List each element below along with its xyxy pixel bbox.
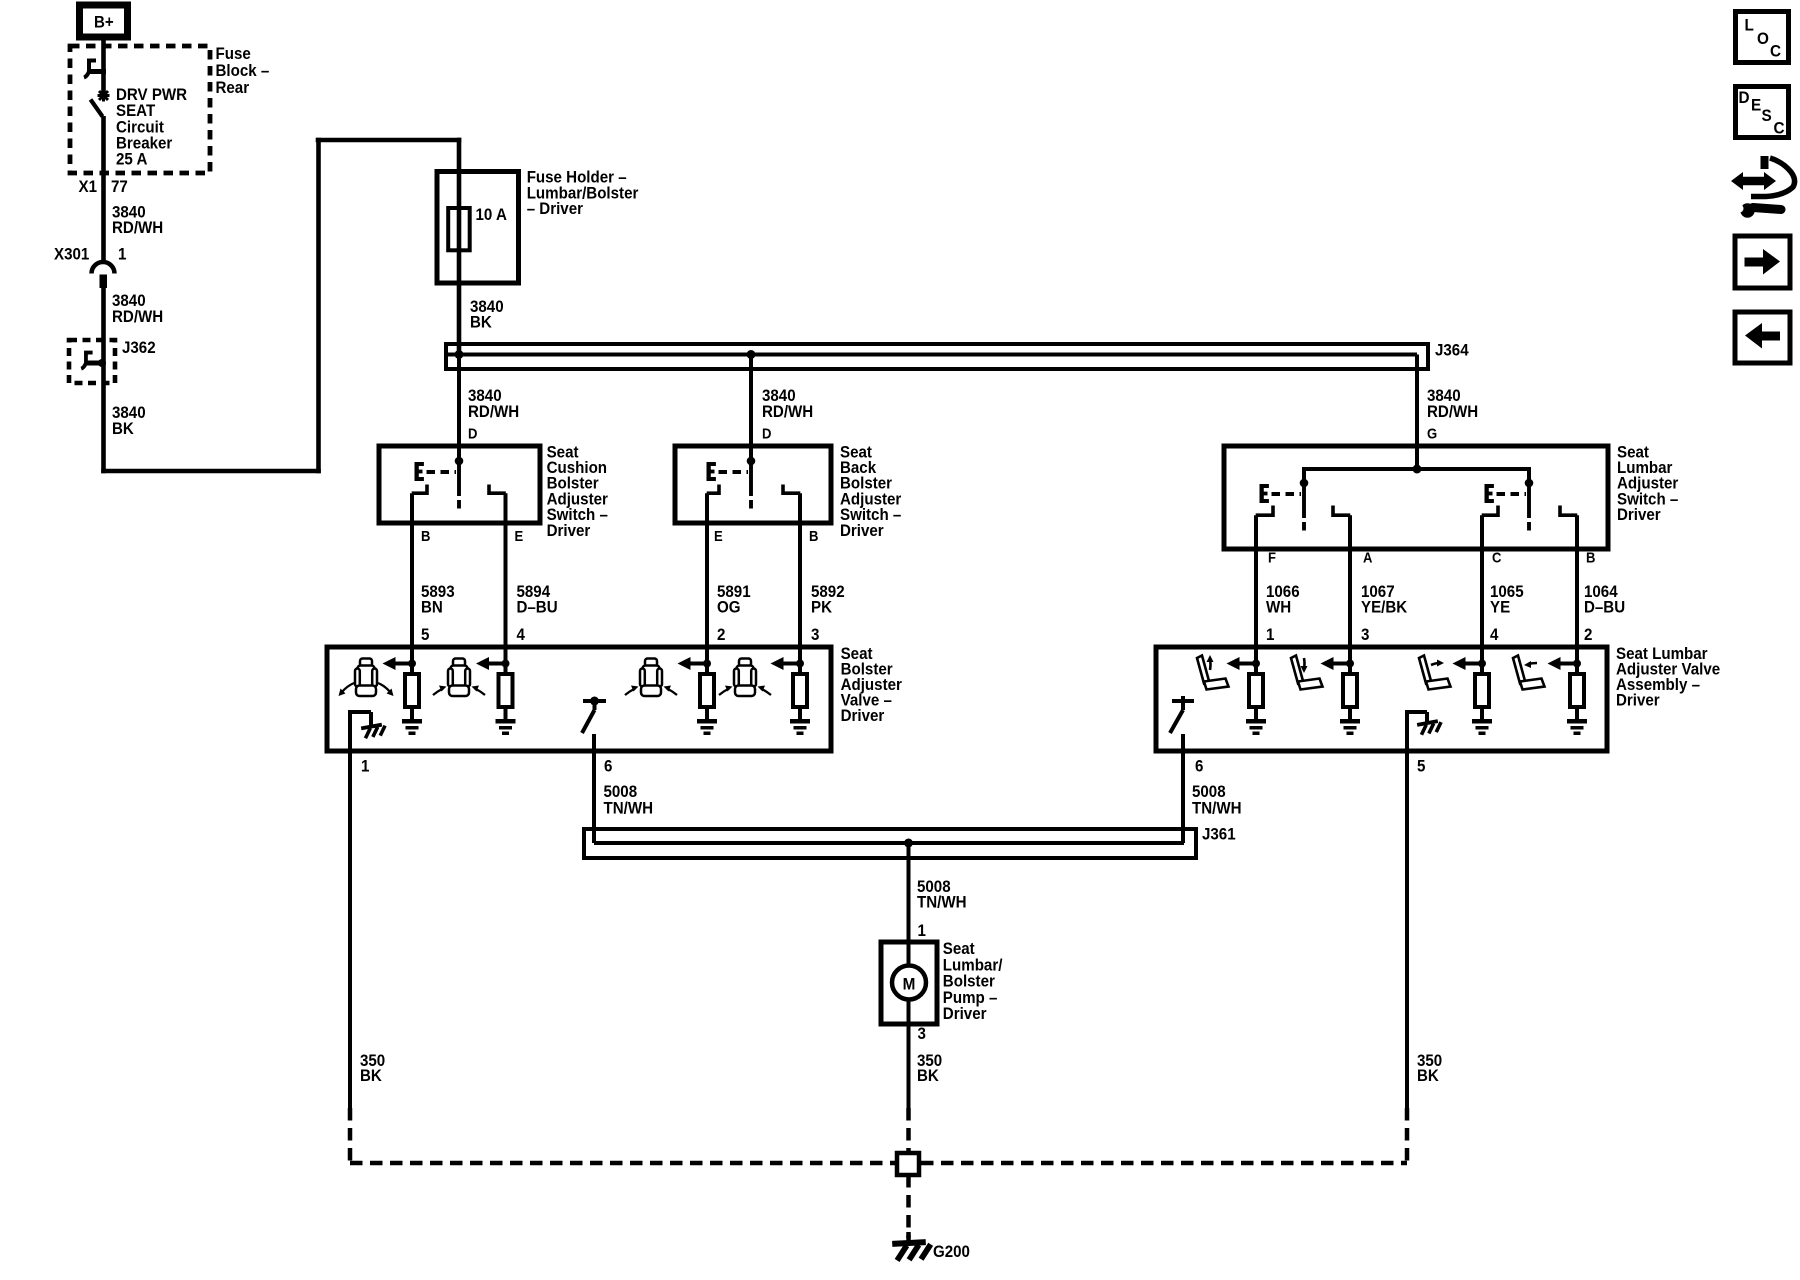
label X301 / pin 1 xyxy=(54,246,127,264)
svg-text:OG: OG xyxy=(717,599,741,617)
svg-text:Breaker: Breaker xyxy=(116,135,172,153)
seat icon for valve: cushion bolster (pin 5) xyxy=(355,659,377,697)
seat icon for valve: lumbar fwd (pin 4) xyxy=(1419,656,1451,690)
svg-text:Rear: Rear xyxy=(216,79,250,97)
label 350 BK xyxy=(1417,1052,1442,1085)
switch: Seat Cushion Bolster Adjuster Switch - Driver (box) xyxy=(379,446,540,523)
icon related-info (arrows + wrench) xyxy=(1731,156,1795,218)
svg-text:TN/WH: TN/WH xyxy=(917,894,967,912)
svg-text:2: 2 xyxy=(717,626,726,644)
wire from B+ to circuit breaker xyxy=(101,37,106,93)
svg-text:WH: WH xyxy=(1266,599,1291,617)
svg-text:D–BU: D–BU xyxy=(517,599,558,617)
svg-text:S: S xyxy=(1762,106,1772,125)
label J361 xyxy=(1202,826,1236,844)
svg-text:RD/WH: RD/WH xyxy=(762,403,813,421)
cushion switch contact pin B wire 5893 BN xyxy=(412,485,428,648)
label Seat Back Bolster Adjuster Switch - Driver xyxy=(840,444,901,540)
valve: back bolster (pin 3) xyxy=(771,647,811,735)
svg-text:5008: 5008 xyxy=(1192,783,1226,801)
splice pack J364 (bus) xyxy=(446,344,1428,369)
valve: back bolster (pin 2) xyxy=(678,647,718,735)
svg-text:B: B xyxy=(421,528,430,544)
label Fuse Holder - Lumbar/Bolster - Driver xyxy=(527,169,639,218)
wire 350 BK right valve pin 5 down xyxy=(1405,751,1409,1108)
lumbar switch right movable contact + E xyxy=(1485,479,1534,531)
svg-text:B: B xyxy=(1586,550,1595,566)
svg-text:Driver: Driver xyxy=(943,1006,987,1024)
label Seat Lumbar Adjuster Switch - Driver xyxy=(1617,444,1678,525)
svg-text:RD/WH: RD/WH xyxy=(468,403,519,421)
svg-text:5: 5 xyxy=(421,626,430,644)
svg-text:Driver: Driver xyxy=(1617,506,1661,524)
svg-text:1: 1 xyxy=(361,758,370,776)
label 3840 RD/WH / pin D xyxy=(468,387,519,441)
pin letters B / E xyxy=(421,528,523,544)
label Fuse Block - Rear xyxy=(216,45,270,97)
junction on J364 (cushion switch feed) xyxy=(455,350,464,359)
svg-text:BN: BN xyxy=(421,599,443,617)
svg-text:BK: BK xyxy=(360,1067,382,1085)
svg-text:YE: YE xyxy=(1490,599,1510,617)
label 5891 OG / pin 2 xyxy=(717,583,751,644)
svg-text:– Driver: – Driver xyxy=(527,200,583,218)
svg-text:O: O xyxy=(1757,29,1769,48)
svg-text:E: E xyxy=(515,528,524,544)
dashed ground wire (pump) xyxy=(906,1108,911,1152)
junction on J364 (back switch feed) xyxy=(747,350,756,359)
svg-text:J361: J361 xyxy=(1202,826,1236,844)
svg-text:Driver: Driver xyxy=(841,708,885,726)
svg-text:Pump –: Pump – xyxy=(943,989,998,1007)
Seat Bolster Adjuster Valve - Driver (box) xyxy=(327,647,831,751)
seat icon for valve: lumbar up (pin 1) xyxy=(1197,656,1229,690)
splice J362 (dashed box) xyxy=(69,340,115,383)
label Seat Cushion Bolster Adjuster Switch - Driver xyxy=(547,444,608,540)
svg-text:Bolster: Bolster xyxy=(943,973,995,991)
label 3840 BK xyxy=(112,404,146,438)
back switch contact pin E wire 5891 OG xyxy=(707,485,720,648)
label 3840 RD/WH / pin D xyxy=(762,387,813,441)
switch: Seat Back Bolster Adjuster Switch - Driver (box) xyxy=(675,446,831,523)
svg-text:TN/WH: TN/WH xyxy=(1192,800,1242,818)
wire 5008 TN/WH J361 to pump pin 1 xyxy=(907,843,911,965)
seat icon for valve: lumbar down (pin 3) xyxy=(1291,656,1323,690)
svg-text:G: G xyxy=(1427,426,1437,442)
ground junction block xyxy=(897,1153,919,1175)
svg-text:C: C xyxy=(1774,119,1785,138)
pin numbers 1 / 6 xyxy=(361,758,613,776)
wire 5008 TN/WH right valve pin 6 to J361 xyxy=(1181,751,1185,843)
icon DESC xyxy=(1736,87,1789,138)
lumbar switch contact pin B wire 1064 D-BU xyxy=(1560,506,1578,648)
switch: Seat Lumbar Adjuster Switch - Driver (box) xyxy=(1224,446,1608,549)
svg-text:PK: PK xyxy=(811,599,832,617)
pressure switch to pump (pin 6) xyxy=(582,697,606,752)
svg-text:BK: BK xyxy=(470,314,492,332)
cushion switch movable contact + E xyxy=(415,457,464,509)
wire 350 BK left valve pin 1 down xyxy=(348,751,352,1108)
label 3840 RD/WH (X301 to J362) xyxy=(112,292,163,326)
cushion switch contact pin E wire 5894 D-BU xyxy=(489,485,506,648)
svg-text:TN/WH: TN/WH xyxy=(604,800,654,818)
wire 350 BK pump pin 3 down xyxy=(907,1000,911,1108)
svg-text:D: D xyxy=(468,426,477,442)
svg-text:RD/WH: RD/WH xyxy=(112,308,163,326)
label G200 xyxy=(933,1243,970,1261)
icon forward arrow xyxy=(1735,236,1790,288)
label 5892 PK / pin 3 xyxy=(811,583,845,644)
svg-text:1: 1 xyxy=(118,246,127,264)
label 5894 D-BU / pin 4 xyxy=(517,583,558,644)
label Seat Bolster Adjuster Valve - Driver xyxy=(841,645,902,725)
splice pack J361 (bus) xyxy=(584,829,1196,858)
wire X301 to J362 xyxy=(101,288,106,363)
svg-text:Fuse: Fuse xyxy=(216,45,251,63)
wire 3840 RD/WH J364 to cushion switch pin D xyxy=(457,355,461,462)
svg-text:J362: J362 xyxy=(122,339,156,357)
in-line connector X301 pin 1 xyxy=(92,262,115,288)
svg-text:5: 5 xyxy=(1417,758,1426,776)
label 5008 TN/WH / pin 1 xyxy=(917,878,967,940)
label pin 3 / 350 BK xyxy=(917,1025,942,1085)
svg-text:Seat: Seat xyxy=(943,940,976,958)
valve: lumbar back (pin 2) xyxy=(1548,647,1588,735)
svg-text:3: 3 xyxy=(811,626,820,644)
label 1066 WH / pin 1 xyxy=(1266,583,1300,644)
svg-text:Driver: Driver xyxy=(840,522,884,540)
label 3840 RD/WH (X1 to X301) xyxy=(112,204,163,237)
back switch contact pin B wire 5892 PK xyxy=(783,485,801,648)
pin letters E / B xyxy=(714,528,818,544)
svg-text:C: C xyxy=(1770,42,1781,61)
svg-text:2: 2 xyxy=(1584,626,1593,644)
svg-text:25 A: 25 A xyxy=(116,151,148,169)
fuse block - rear (dashed outline) xyxy=(70,46,210,173)
dashed wire junction to G200 xyxy=(906,1175,911,1238)
label J362 xyxy=(122,339,156,357)
svg-text:D: D xyxy=(762,426,771,442)
svg-text:5008: 5008 xyxy=(604,783,638,801)
label DRV PWR SEAT Circuit Breaker 25 A xyxy=(116,86,188,169)
svg-text:BK: BK xyxy=(1417,1067,1439,1085)
lumbar switch feed distribution wire xyxy=(1302,465,1531,484)
svg-text:J364: J364 xyxy=(1435,342,1469,360)
svg-text:Driver: Driver xyxy=(1616,692,1660,710)
label 3840 RD/WH / pin G xyxy=(1427,387,1478,441)
label 5008 TN/WH xyxy=(604,783,654,817)
svg-text:F: F xyxy=(1268,550,1276,566)
svg-text:RD/WH: RD/WH xyxy=(1427,403,1478,421)
label 1065 YE / pin 4 xyxy=(1490,583,1524,644)
svg-text:4: 4 xyxy=(517,626,526,644)
svg-text:BK: BK xyxy=(112,420,134,438)
svg-text:DRV PWR: DRV PWR xyxy=(116,86,188,104)
svg-text:1: 1 xyxy=(918,922,927,940)
label Seat Lumbar Adjuster Valve Assembly - Driver xyxy=(1616,645,1720,710)
svg-text:Driver: Driver xyxy=(547,522,591,540)
valve: lumbar down (pin 3) xyxy=(1321,647,1361,735)
svg-text:10 A: 10 A xyxy=(476,206,508,224)
seat icon for valve: cushion bolster (pin 4) xyxy=(448,659,470,697)
label 5893 BN / pin 5 xyxy=(421,583,455,644)
svg-text:SEAT: SEAT xyxy=(116,102,155,120)
motor: Seat Lumbar/Bolster Pump - Driver xyxy=(881,942,937,1024)
svg-text:6: 6 xyxy=(604,758,613,776)
valve: lumbar fwd (pin 4) xyxy=(1453,647,1493,735)
wire 3840 BK fuse holder to J364 xyxy=(457,283,462,354)
svg-text:Lumbar/: Lumbar/ xyxy=(943,957,1003,975)
label 5008 TN/WH xyxy=(1192,783,1242,817)
svg-text:C: C xyxy=(1492,550,1501,566)
valve: cushion bolster (pin 5) xyxy=(383,647,423,735)
svg-text:D–BU: D–BU xyxy=(1584,599,1625,617)
splice J362 symbol xyxy=(81,353,106,369)
seat icon for valve: lumbar back (pin 2) xyxy=(1513,656,1545,690)
svg-text:RD/WH: RD/WH xyxy=(112,219,163,237)
junction on J361 (pump feed) xyxy=(904,839,913,848)
svg-text:1: 1 xyxy=(1266,626,1275,644)
svg-text:A: A xyxy=(1363,550,1372,566)
valve: lumbar up (pin 1) xyxy=(1227,647,1267,735)
dashed ground bus to G200 xyxy=(350,1161,1407,1166)
svg-text:L: L xyxy=(1745,16,1754,35)
connector X1 pin 77 xyxy=(79,178,128,196)
label Seat Lumbar/Bolster Pump - Driver xyxy=(943,940,1003,1023)
wire circuit breaker to X301 xyxy=(101,116,106,261)
svg-text:Circuit: Circuit xyxy=(116,119,164,137)
svg-text:X301: X301 xyxy=(54,246,89,264)
wire 3840 RD/WH J364 to lumbar switch pin G xyxy=(1415,355,1419,470)
lumbar switch contact pin F wire 1066 WH xyxy=(1256,506,1274,648)
label 1064 D-BU / pin 2 xyxy=(1584,583,1625,644)
pressure switch to pump (pin 6, right) xyxy=(1170,696,1194,751)
svg-text:G200: G200 xyxy=(933,1243,970,1261)
svg-text:BK: BK xyxy=(917,1067,939,1085)
svg-text:X1: X1 xyxy=(79,178,98,196)
icon back arrow xyxy=(1735,312,1790,363)
dashed ground wire (left) xyxy=(348,1108,353,1163)
pin numbers 6 / 5 xyxy=(1195,758,1426,776)
svg-text:YE/BK: YE/BK xyxy=(1361,599,1408,617)
svg-text:M: M xyxy=(903,975,916,994)
svg-text:B+: B+ xyxy=(94,14,114,32)
label 350 BK xyxy=(360,1052,385,1085)
label J364 xyxy=(1435,342,1469,360)
circuit breaker DRV PWR SEAT 25 A xyxy=(84,61,110,117)
svg-text:3: 3 xyxy=(918,1025,927,1043)
label 3840 BK xyxy=(470,298,504,331)
fuse 10 A xyxy=(448,174,507,283)
wire 3840 RD/WH J364 to back switch pin D xyxy=(749,355,753,462)
ground G200 xyxy=(892,1232,931,1261)
label 1067 YE/BK / pin 3 xyxy=(1361,583,1408,644)
svg-text:6: 6 xyxy=(1195,758,1204,776)
Seat Lumbar Adjuster Valve Assembly - Driver (box) xyxy=(1156,647,1607,751)
internal ground lead (pin 1) xyxy=(348,710,387,751)
dashed ground wire (right) xyxy=(1405,1108,1410,1163)
svg-text:E: E xyxy=(714,528,723,544)
seat icon for valve: back bolster (pin 2) xyxy=(640,659,662,697)
lumbar switch left movable contact + E xyxy=(1260,479,1309,531)
fuse holder box xyxy=(437,172,519,284)
wire 5008 TN/WH left valve pin 6 to J361 xyxy=(592,751,596,843)
svg-text:D: D xyxy=(1739,88,1750,107)
svg-text:Block –: Block – xyxy=(216,62,270,80)
svg-text:77: 77 xyxy=(111,178,128,196)
lumbar switch contact pin A wire 1067 YE/BK xyxy=(1333,506,1351,648)
svg-text:E: E xyxy=(1751,96,1761,115)
svg-text:4: 4 xyxy=(1490,626,1499,644)
lumbar switch contact pin C wire 1065 YE xyxy=(1482,506,1499,648)
seat icon for valve: back bolster (pin 3) xyxy=(734,659,756,697)
svg-text:3: 3 xyxy=(1361,626,1370,644)
pin letters F / A / C / B xyxy=(1268,550,1595,566)
battery feed B+ xyxy=(80,5,128,37)
valve: cushion bolster (pin 4) xyxy=(476,647,516,735)
wire J362 to fuse holder (routed) xyxy=(101,138,461,474)
icon LOC xyxy=(1736,12,1789,63)
internal ground lead (pin 5) xyxy=(1405,710,1443,751)
back switch movable contact + E xyxy=(707,457,756,509)
svg-text:B: B xyxy=(809,528,818,544)
